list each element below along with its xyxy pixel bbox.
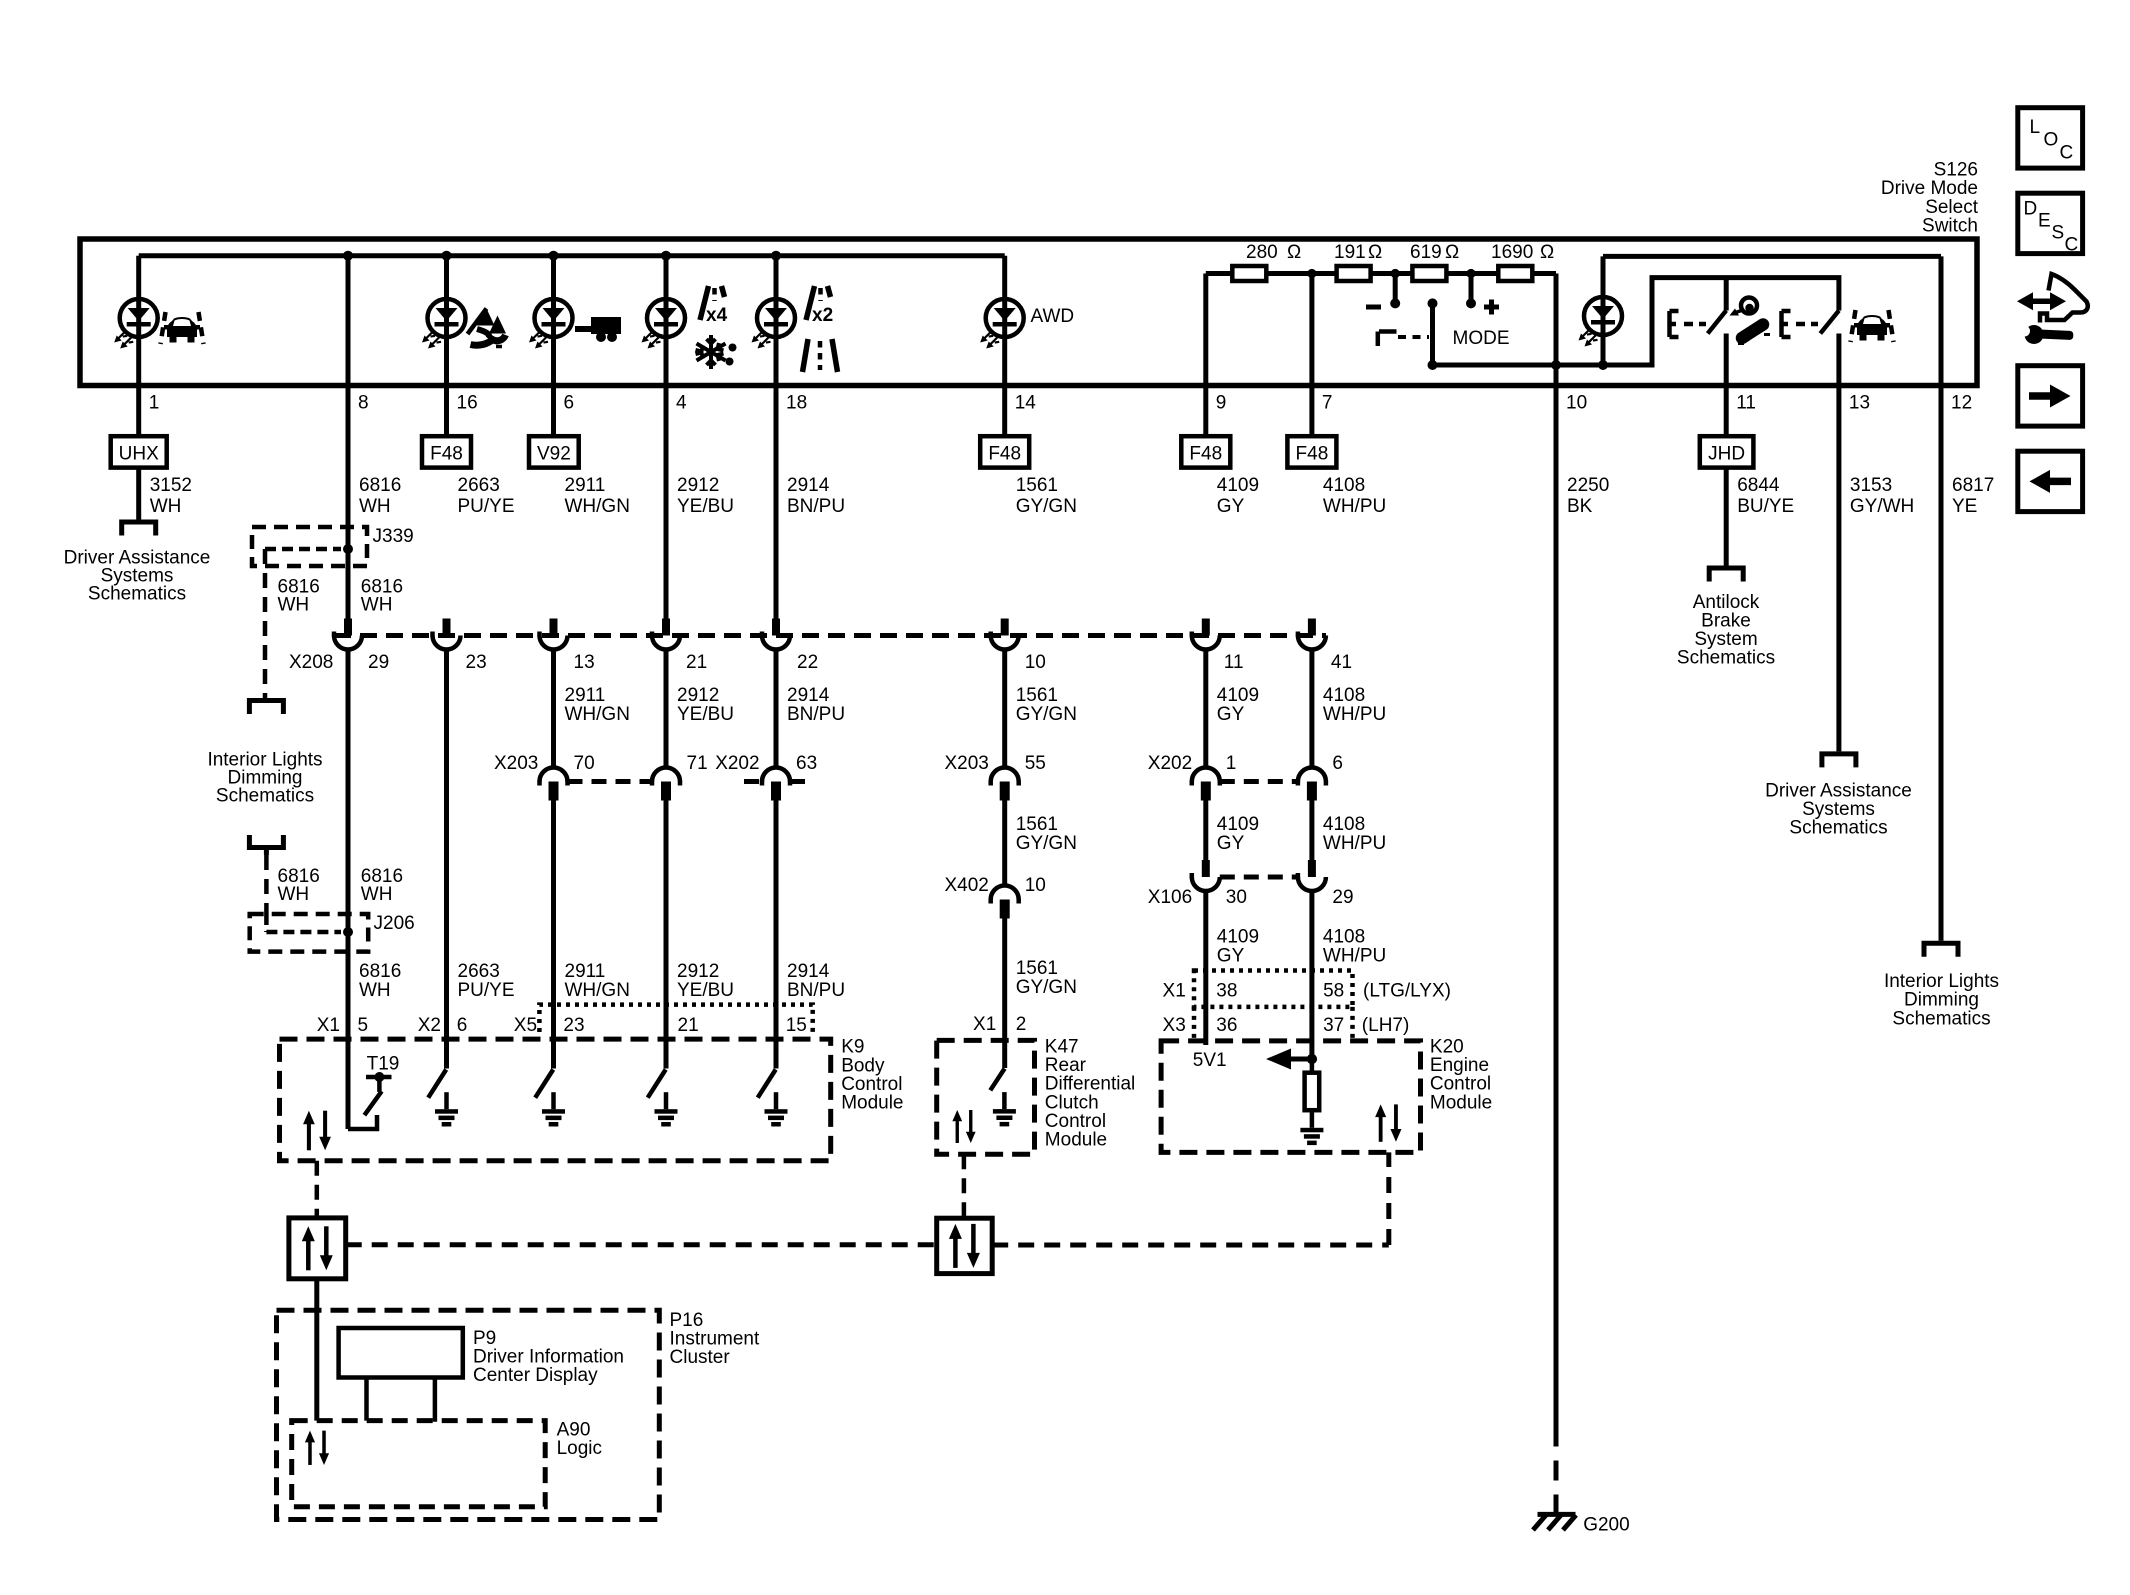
wire serial box to P16 [314, 1279, 319, 1421]
wire dashed K47 to serial box [962, 1154, 967, 1218]
svg-text:30: 30 [1226, 887, 1247, 908]
svg-text:2250: 2250 [1567, 475, 1609, 496]
svg-text:4109: 4109 [1217, 814, 1259, 835]
svg-text:x4: x4 [706, 305, 728, 326]
svg-text:280: 280 [1246, 242, 1278, 263]
serial data arrows (A90) [305, 1431, 329, 1465]
connector UHX [111, 436, 167, 467]
wire 14 X208 to X203 [1002, 650, 1007, 769]
module K47 Rear Differential Clutch Control Module box [937, 1040, 1035, 1154]
svg-text:X203: X203 [945, 753, 989, 774]
svg-text:Module: Module [1045, 1130, 1107, 1151]
svg-text:4109: 4109 [1217, 475, 1259, 496]
svg-text:2: 2 [1016, 1014, 1027, 1035]
wire pin 14 AWD (bus to F48) [1002, 256, 1007, 437]
switch K9 output (wire 4) [648, 1070, 666, 1098]
connector X208 pin11 (wire 9) [1192, 619, 1220, 650]
ground (K47) [993, 1092, 1016, 1126]
svg-text:55: 55 [1025, 753, 1046, 774]
svg-text:2912: 2912 [677, 685, 719, 706]
wire P9 legs [367, 1378, 435, 1422]
svg-text:6: 6 [457, 1015, 468, 1036]
connector F48 pin9 [1181, 436, 1230, 467]
svg-text:4108: 4108 [1323, 814, 1365, 835]
svg-text:619: 619 [1410, 242, 1442, 263]
svg-text:C: C [2065, 235, 2079, 256]
sidebar vehicle data icon [2017, 274, 2088, 344]
connector X402 pin10 (wire 14) [991, 886, 1019, 919]
svg-text:3153: 3153 [1850, 475, 1892, 496]
ground (K9 wire 16) [435, 1092, 458, 1126]
svg-text:2912: 2912 [677, 961, 719, 982]
wire pin 12 to off-page [1939, 256, 1944, 940]
LED road x2 (pin 18) [752, 299, 796, 349]
svg-text:2911: 2911 [565, 475, 606, 496]
svg-text:C: C [2060, 143, 2074, 164]
serial data box (right) [937, 1218, 993, 1273]
junction on LED bus [343, 251, 353, 261]
junction J339 on wire 8 [343, 544, 353, 554]
module K20 Engine Control Module box [1161, 1041, 1420, 1153]
svg-text:4108: 4108 [1323, 685, 1365, 706]
svg-text:MODE: MODE [1453, 328, 1510, 349]
icon road (pin 18 lower) [803, 339, 838, 372]
connector X208 pin23 (wire 16) [433, 619, 461, 650]
svg-text:58: 58 [1323, 981, 1344, 1002]
svg-text:70: 70 [574, 753, 595, 774]
connector X208 pin10 (wire 14) [991, 619, 1019, 650]
svg-text:7: 7 [1322, 393, 1333, 414]
wire 16 X208 to K9 [444, 650, 449, 1069]
svg-text:BK: BK [1567, 496, 1593, 517]
svg-text:T19: T19 [367, 1054, 400, 1075]
wire dashed branch to J206 [264, 855, 269, 914]
LED trailer (pin 6) [529, 299, 573, 349]
wire minus tap [1393, 274, 1398, 304]
icon snowflake (pin 4) [696, 335, 726, 369]
wire pin 10 to G200 (dashed) [1554, 1427, 1559, 1513]
svg-text:15: 15 [786, 1015, 807, 1036]
svg-text:18: 18 [786, 393, 807, 414]
connector F48 pin16 [422, 436, 471, 467]
svg-text:Ω: Ω [1540, 242, 1554, 263]
wire 7 X208 to X202 [1309, 650, 1314, 769]
svg-text:Schematics: Schematics [1892, 1009, 1990, 1030]
svg-text:F48: F48 [1189, 444, 1222, 465]
connector X203 pin71 (wire 4) [652, 768, 680, 801]
svg-text:2911: 2911 [565, 961, 606, 982]
svg-text:X203: X203 [494, 753, 538, 774]
wire pin 11 JHD to off-page [1724, 468, 1729, 566]
svg-text:37: 37 [1323, 1015, 1344, 1036]
svg-text:GY/GN: GY/GN [1016, 977, 1077, 998]
resistor 280 ohm [1232, 266, 1266, 281]
wire pin 1 (bus to UHX) [136, 256, 141, 437]
svg-text:10: 10 [1025, 652, 1046, 673]
icon road x4 (pin 4) [700, 286, 725, 320]
svg-text:1561: 1561 [1016, 685, 1058, 706]
svg-text:WH/PU: WH/PU [1323, 704, 1386, 725]
svg-text:Logic: Logic [557, 1438, 602, 1459]
svg-text:BN/PU: BN/PU [787, 980, 845, 1001]
display P9 box [339, 1328, 463, 1378]
svg-text:1561: 1561 [1016, 475, 1058, 496]
connector X3 dotted sides (K20) [1194, 1007, 1353, 1040]
switch 1 actuator E [1670, 311, 1707, 337]
svg-text:36: 36 [1216, 1015, 1237, 1036]
off-page bracket Driver Assistance (pin 1) [122, 522, 156, 536]
connector V92 [529, 436, 579, 467]
wire pin 13 to off-page [1836, 334, 1841, 752]
connector X208 pin21 (wire 4) [652, 619, 680, 650]
resistor 619 ohm [1412, 266, 1446, 281]
connector X202 pin6 (wire 7) [1298, 768, 1326, 801]
svg-text:X1: X1 [973, 1014, 996, 1035]
wire 6 X208 to X203 [551, 650, 556, 769]
svg-text:O: O [2044, 130, 2059, 151]
icon steering wheel mode [1730, 298, 1771, 344]
svg-text:D: D [2024, 199, 2038, 220]
svg-text:GY/WH: GY/WH [1850, 496, 1914, 517]
svg-text:WH/GN: WH/GN [565, 704, 630, 725]
wire splice branch J339 [265, 547, 341, 552]
svg-text:4109: 4109 [1217, 927, 1259, 948]
wire pin 16 (bus to F48) [444, 256, 449, 437]
wire pin 1 to off-page [136, 468, 141, 520]
svg-text:JHD: JHD [1708, 444, 1745, 465]
resistor pull-down (K20) [1310, 1059, 1315, 1073]
switch 2 (lane keep) arm [1820, 311, 1839, 334]
svg-text:1: 1 [1226, 753, 1237, 774]
wire 4 X208 to X203 [664, 650, 669, 769]
svg-text:22: 22 [797, 652, 818, 673]
svg-text:Schematics: Schematics [1677, 648, 1775, 669]
svg-text:PU/YE: PU/YE [458, 496, 515, 517]
svg-text:1: 1 [149, 393, 160, 414]
svg-text:F48: F48 [1296, 444, 1329, 465]
svg-text:E: E [2038, 211, 2051, 232]
svg-text:S: S [2052, 223, 2065, 244]
svg-text:YE/BU: YE/BU [677, 496, 734, 517]
svg-text:Switch: Switch [1922, 216, 1978, 237]
connector X5 dotted box (K9) [539, 1005, 812, 1032]
icon trailer (pin 6) [575, 317, 621, 342]
wire pin 10 to G200 (solid) [1554, 365, 1559, 1427]
svg-text:BU/YE: BU/YE [1737, 496, 1794, 517]
svg-text:191: 191 [1334, 242, 1366, 263]
transistor T19 contact and arm [364, 1077, 391, 1115]
wire pin 10 (ladder corner down) [1554, 274, 1559, 366]
switch S126 Drive Mode Select Switch outer box [80, 239, 1977, 386]
svg-text:WH: WH [361, 595, 393, 616]
svg-text:2663: 2663 [458, 475, 500, 496]
wire 9 X202 to X106 [1203, 801, 1208, 861]
wire X202 pair dashed [1220, 779, 1298, 784]
svg-text:GY: GY [1217, 833, 1245, 854]
svg-text:29: 29 [1332, 887, 1353, 908]
svg-text:63: 63 [796, 753, 817, 774]
label minus [1366, 305, 1381, 310]
svg-text:WH: WH [278, 595, 310, 616]
svg-text:GY: GY [1217, 704, 1245, 725]
resistor 191 ohm [1337, 266, 1371, 281]
icon slippery road (pin 16) [468, 309, 507, 347]
svg-text:J206: J206 [374, 913, 415, 934]
svg-text:Module: Module [841, 1093, 903, 1114]
svg-text:16: 16 [457, 393, 478, 414]
svg-text:4109: 4109 [1217, 685, 1259, 706]
junction on LED bus [661, 251, 671, 261]
wire pin 4 (bus down) [664, 256, 669, 619]
svg-text:YE/BU: YE/BU [677, 980, 734, 1001]
wire pin 18 (bus down) [774, 256, 779, 619]
MODE actuator link [1378, 332, 1397, 347]
svg-text:BN/PU: BN/PU [787, 496, 845, 517]
MODE switch pole [1430, 303, 1435, 365]
svg-text:X5: X5 [514, 1015, 537, 1036]
switch K9 output (wire 16) [428, 1070, 446, 1098]
off-page bracket Interior Lights (pin 12) [1924, 943, 1958, 957]
junction on LED bus [771, 251, 781, 261]
svg-text:9: 9 [1216, 393, 1227, 414]
ground (K9 wire 4) [655, 1092, 678, 1126]
svg-text:X3: X3 [1163, 1015, 1186, 1036]
svg-text:1561: 1561 [1016, 814, 1058, 835]
svg-text:6817: 6817 [1952, 475, 1994, 496]
svg-text:13: 13 [1849, 393, 1870, 414]
LED lane-departure (pin 1) [114, 299, 158, 349]
svg-text:(LTG/LYX): (LTG/LYX) [1363, 981, 1451, 1002]
svg-text:Cluster: Cluster [670, 1347, 731, 1368]
svg-text:GY/GN: GY/GN [1016, 704, 1077, 725]
wire dashed serial bus [346, 1242, 937, 1247]
svg-text:2912: 2912 [677, 475, 719, 496]
serial data box (left) [289, 1218, 346, 1279]
wire pin 7 (ladder to F48) [1309, 274, 1314, 437]
ground (K20) [1310, 1108, 1315, 1113]
svg-text:X1: X1 [317, 1015, 340, 1036]
wire pin 8 (bus down) [346, 256, 351, 619]
connector F48 pin14 [980, 436, 1029, 467]
svg-text:F48: F48 [430, 444, 463, 465]
svg-text:X1: X1 [1163, 981, 1186, 1002]
svg-text:13: 13 [574, 652, 595, 673]
wire internal LED supply bus [139, 253, 1005, 258]
switch K9 output (wire 6) [535, 1070, 553, 1098]
svg-text:71: 71 [687, 753, 708, 774]
junction on LED bus [442, 251, 452, 261]
svg-text:10: 10 [1566, 393, 1587, 414]
wire 14 X203 to X402 [1002, 801, 1007, 887]
switch sub-box [1640, 278, 1839, 365]
svg-text:6816: 6816 [359, 961, 401, 982]
switch 2 actuator E [1782, 311, 1819, 337]
svg-text:X2: X2 [418, 1015, 441, 1036]
svg-text:Center Display: Center Display [473, 1365, 598, 1386]
svg-text:UHX: UHX [119, 444, 159, 465]
connector F48 pin7 [1287, 436, 1336, 467]
serial data arrows (right box) [949, 1224, 980, 1268]
svg-text:2911: 2911 [565, 685, 606, 706]
connector X106 pin29 (wire 7) [1298, 860, 1326, 891]
wire 18 X208 to X202 [774, 650, 779, 769]
svg-text:10: 10 [1025, 875, 1046, 896]
svg-text:Ω: Ω [1445, 242, 1459, 263]
svg-text:WH/PU: WH/PU [1323, 496, 1386, 517]
svg-text:Schematics: Schematics [1789, 817, 1887, 838]
svg-text:Ω: Ω [1287, 242, 1301, 263]
svg-text:WH/GN: WH/GN [565, 496, 630, 517]
svg-text:x2: x2 [812, 305, 833, 326]
wire plus tap [1469, 274, 1474, 304]
svg-text:WH: WH [359, 496, 391, 517]
svg-text:Schematics: Schematics [216, 786, 314, 807]
splice J339 box [252, 527, 367, 566]
svg-text:5: 5 [358, 1015, 369, 1036]
svg-text:14: 14 [1015, 393, 1037, 414]
wire dashed serial bus right [992, 1152, 1389, 1245]
wire X203 pair dashed [568, 779, 653, 784]
sidebar LOC box [2018, 108, 2083, 168]
svg-text:WH/PU: WH/PU [1323, 946, 1386, 967]
connector JHD [1700, 436, 1754, 467]
LED AWD (pin 14) [980, 299, 1024, 349]
module A90 Logic box [292, 1421, 546, 1507]
connector row X208 dashed line [334, 633, 1326, 638]
connector X202 pin63 (wire 18) [744, 779, 808, 784]
junction 5V node on wire 7 [1307, 1054, 1317, 1064]
svg-text:6: 6 [1332, 753, 1343, 774]
ground (K9 wire 6) [542, 1092, 565, 1126]
svg-text:1690: 1690 [1491, 242, 1533, 263]
svg-text:WH/PU: WH/PU [1323, 833, 1386, 854]
svg-text:GY: GY [1217, 496, 1245, 517]
sidebar DESC box [2018, 193, 2083, 253]
svg-text:X202: X202 [1148, 753, 1192, 774]
serial data arrows (K20) [1375, 1104, 1401, 1141]
splice J206 box [250, 914, 369, 952]
wire 6816 WH dashed branch down [263, 549, 268, 698]
ground G200 chassis symbol [1533, 1514, 1576, 1530]
wire pin 6 (bus to V92) [551, 256, 556, 437]
switch K9 output (wire 18) [758, 1070, 776, 1098]
wire pin 11 inside S126 [1724, 334, 1729, 437]
module K9 Body Control Module box [280, 1039, 831, 1161]
wire 7 X106 to K20 [1309, 891, 1314, 1059]
switch K47 (wire 14) [990, 1069, 1004, 1091]
resistor 1690 ohm [1498, 266, 1532, 281]
off-page bracket Antilock (pin 11) [1709, 568, 1743, 582]
LED slippery (pin 16) [422, 299, 466, 349]
svg-text:GY: GY [1217, 946, 1245, 967]
svg-text:F48: F48 [988, 444, 1021, 465]
svg-text:4108: 4108 [1323, 475, 1365, 496]
svg-text:WH: WH [359, 980, 391, 1001]
svg-text:YE/BU: YE/BU [677, 704, 734, 725]
svg-text:41: 41 [1331, 652, 1352, 673]
svg-text:GY/GN: GY/GN [1016, 833, 1077, 854]
svg-text:2914: 2914 [787, 685, 830, 706]
wire 4 X203 to K9 [664, 801, 669, 1069]
svg-text:L: L [2030, 117, 2041, 138]
wire splice branch J206 [266, 914, 341, 932]
wire 8 X208 to T19 [346, 650, 351, 1130]
icon lane departure car (pin 1) [161, 312, 204, 344]
svg-text:11: 11 [1736, 393, 1756, 414]
svg-text:WH: WH [278, 884, 310, 905]
wire 18 X202 to K9 [774, 801, 779, 1069]
sidebar back arrow box [2018, 451, 2083, 511]
svg-text:1561: 1561 [1016, 958, 1058, 979]
svg-text:X106: X106 [1148, 887, 1192, 908]
svg-text:23: 23 [563, 1015, 584, 1036]
icon road x2 (pin 18) [806, 286, 831, 320]
svg-text:5V1: 5V1 [1193, 1050, 1227, 1071]
svg-text:WH/GN: WH/GN [565, 980, 630, 1001]
svg-text:23: 23 [466, 652, 487, 673]
icon lane keep car [1851, 310, 1894, 342]
svg-text:BN/PU: BN/PU [787, 704, 845, 725]
module P16 Instrument Cluster box [277, 1310, 660, 1519]
svg-text:21: 21 [678, 1015, 699, 1036]
svg-text:11: 11 [1224, 652, 1244, 673]
connector X203 pin55 (wire 14) [991, 768, 1019, 801]
connector X208 pin13 (wire 6) [540, 619, 568, 650]
wire T19 emitter hook [348, 1115, 377, 1129]
svg-text:X202: X202 [715, 753, 759, 774]
serial data arrows (K9) [303, 1111, 331, 1151]
svg-text:3152: 3152 [150, 475, 192, 496]
svg-text:WH: WH [361, 884, 393, 905]
svg-text:(LH7): (LH7) [1362, 1015, 1410, 1036]
svg-text:J339: J339 [373, 526, 414, 547]
connector X106 pin30 (wire 9) [1192, 860, 1220, 891]
internal 5V arrow (K20) [1290, 1057, 1312, 1062]
svg-text:2914: 2914 [787, 961, 830, 982]
serial data arrows (left box) [302, 1226, 333, 1270]
connector X203 pin70 (wire 6) [540, 768, 568, 801]
svg-text:12: 12 [1951, 393, 1972, 414]
svg-text:X402: X402 [945, 875, 989, 896]
svg-text:4108: 4108 [1323, 927, 1365, 948]
svg-text:GY/GN: GY/GN [1016, 496, 1077, 517]
switch 1 (steering mode) arm [1708, 311, 1727, 334]
svg-text:G200: G200 [1583, 1515, 1629, 1536]
wire X106 pair dashed [1220, 875, 1298, 880]
wire node line (MODE common) [1433, 363, 1653, 368]
svg-text:X208: X208 [289, 652, 333, 673]
connector X1 dotted box (K20) [1194, 971, 1353, 1007]
junction pin 10 node [1551, 360, 1561, 370]
svg-text:38: 38 [1216, 981, 1237, 1002]
junction J206 on wire 8 [343, 927, 353, 937]
connector X202 pin1 (wire 9) [1192, 768, 1220, 801]
ground (K9 wire 18) [765, 1092, 788, 1126]
sidebar forward arrow box [2018, 366, 2083, 426]
junction LED node [1598, 360, 1608, 370]
svg-text:4: 4 [676, 393, 687, 414]
svg-text:YE: YE [1952, 496, 1977, 517]
connector X208 pin41 (wire 7) [1298, 619, 1326, 650]
wire 14 X402 to K47 [1002, 919, 1007, 1069]
junction on LED bus [549, 251, 559, 261]
junction ladder pin 7 [1307, 269, 1316, 278]
wire 9 X208 to X202 [1203, 650, 1208, 769]
wire 7 X202 to X106 [1309, 801, 1314, 861]
connector X208 pin22 (wire 18) [762, 619, 790, 650]
svg-text:2914: 2914 [787, 475, 830, 496]
svg-text:WH: WH [150, 496, 182, 517]
